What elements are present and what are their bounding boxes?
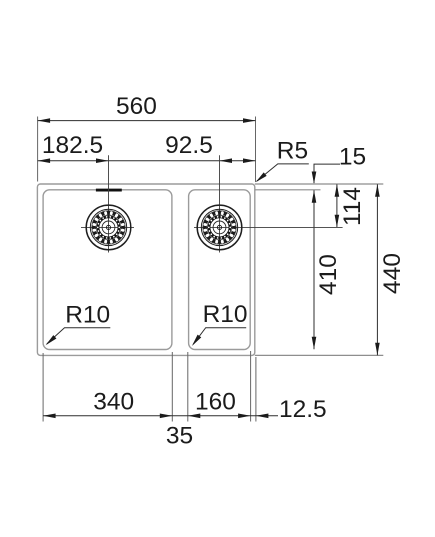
svg-text:410: 410: [315, 254, 342, 295]
dim 92.5: [165, 132, 255, 163]
centre line left drain horizontal: [81, 226, 134, 228]
dim 560: [38, 93, 256, 123]
centre line right drain horizontal: [194, 226, 343, 228]
bottom extension lines: [43, 351, 256, 422]
dim 15: [312, 143, 366, 184]
svg-text:R5: R5: [277, 138, 308, 165]
dim 182.5 and 92.5 shared line: [38, 160, 256, 162]
svg-text:15: 15: [339, 143, 366, 170]
dim 12.5: [256, 396, 327, 423]
right bowl outline: [189, 190, 251, 350]
centre line right drain vertical: [219, 155, 221, 252]
centre line left drain vertical: [108, 155, 110, 252]
dim 160: [188, 389, 251, 419]
drain strainer right bowl: [197, 205, 242, 250]
dim 340: [43, 389, 172, 419]
label R10 right bowl: [190, 301, 247, 348]
svg-text:12.5: 12.5: [279, 396, 327, 423]
svg-text:35: 35: [166, 423, 193, 450]
svg-text:440: 440: [379, 253, 406, 294]
svg-text:182.5: 182.5: [42, 132, 103, 159]
svg-text:560: 560: [116, 93, 157, 120]
svg-text:R10: R10: [203, 301, 248, 328]
dim 114: [335, 184, 366, 227]
extension line right top: [255, 117, 257, 183]
dim 182.5: [38, 132, 109, 163]
svg-text:92.5: 92.5: [165, 132, 213, 159]
dim 440: [375, 184, 406, 355]
extension line left top: [37, 117, 39, 182]
label R10 left bowl: [44, 301, 110, 347]
svg-text:160: 160: [195, 389, 236, 416]
svg-text:R10: R10: [65, 301, 110, 328]
bottom dimension line: [43, 415, 278, 417]
sink outer outline: [37, 184, 254, 355]
svg-text:340: 340: [93, 389, 134, 416]
label R5 leader: [254, 138, 309, 184]
left bowl outline: [43, 190, 172, 350]
extension lines right side: [255, 184, 383, 355]
svg-text:114: 114: [339, 187, 366, 226]
dim 410: [312, 190, 342, 349]
dim 35: [166, 423, 193, 450]
tap ledge mark: [96, 189, 122, 192]
drain strainer left bowl: [86, 205, 131, 250]
